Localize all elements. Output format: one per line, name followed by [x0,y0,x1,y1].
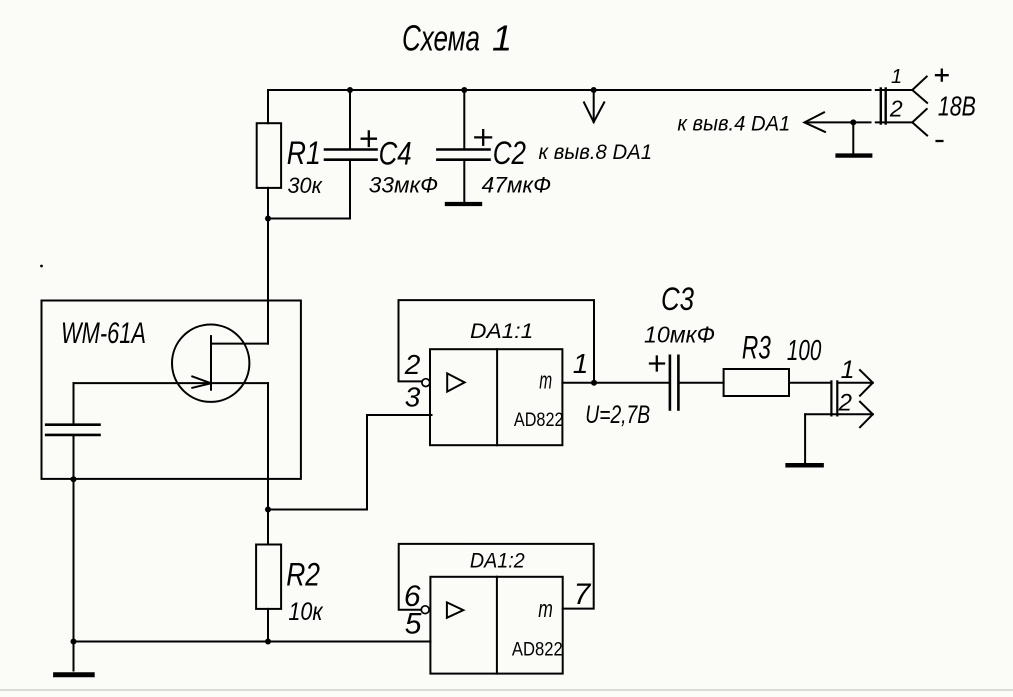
svg-text:C2: C2 [493,135,526,171]
svg-text:1: 1 [492,18,512,59]
svg-text:18В: 18В [938,91,976,122]
svg-text:R1: R1 [287,135,321,171]
svg-text:WM-61A: WM-61A [61,317,146,350]
svg-text:3: 3 [405,382,421,413]
svg-text:5: 5 [405,607,422,640]
svg-text:10к: 10к [288,598,323,626]
svg-text:R3: R3 [742,329,771,365]
svg-text:к выв.8 DA1: к выв.8 DA1 [539,141,653,164]
svg-text:7: 7 [574,578,592,611]
svg-text:100: 100 [787,335,821,367]
svg-text:к выв.4 DA1: к выв.4 DA1 [677,112,790,135]
svg-text:C4: C4 [379,136,412,172]
svg-text:AD822: AD822 [512,639,563,660]
svg-text:AD822: AD822 [514,410,564,431]
svg-text:10мкФ: 10мкФ [644,322,715,348]
svg-text:m: m [539,367,552,394]
svg-text:2: 2 [889,96,903,122]
svg-text:R2: R2 [286,556,320,592]
svg-text:1: 1 [891,66,902,88]
svg-text:U=2,7В: U=2,7В [585,401,650,429]
svg-text:m: m [538,596,553,623]
svg-text:2: 2 [838,389,852,416]
svg-text:1: 1 [573,348,589,379]
svg-text:30к: 30к [288,173,324,198]
svg-text:33мкФ: 33мкФ [369,173,438,198]
svg-text:47мкФ: 47мкФ [482,173,551,198]
svg-text:C3: C3 [661,281,694,317]
svg-text:DA1:1: DA1:1 [470,320,533,343]
svg-text:Схема: Схема [402,18,480,59]
svg-text:DA1:2: DA1:2 [470,550,525,573]
svg-text:2: 2 [404,349,421,380]
svg-text:1: 1 [841,356,855,384]
